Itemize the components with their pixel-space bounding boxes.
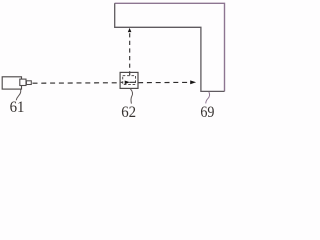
laser source 61: main body <box>2 77 21 89</box>
svg-text:62: 62 <box>121 104 136 120</box>
modulator 62: internal beam arrow <box>125 81 130 85</box>
wire: vertical dash inside box 62 top <box>129 73 131 76</box>
arrowhead on beam at 69 <box>190 80 196 84</box>
wire: horizontal dashed beam from 61 to 69 <box>33 81 190 84</box>
wire: vertical dashed beam from 62 up to 69 <box>129 33 131 76</box>
mirror body 69 (L-shaped block), outer purple edges <box>115 3 225 91</box>
leader line to label 69 <box>206 92 210 103</box>
leader line to label 62 <box>130 89 132 104</box>
svg-text:69: 69 <box>200 104 214 120</box>
wire: horizontal dash inside box 62 left <box>121 81 123 83</box>
mirror body 69 inner gray edges <box>115 3 225 91</box>
modulator 62: outer box <box>120 72 138 88</box>
modulator 62: internal beam line <box>130 81 136 83</box>
svg-text:61: 61 <box>10 99 25 117</box>
modulator 62: inner dashed cell <box>123 76 136 85</box>
arrowhead on vertical beam <box>128 28 132 32</box>
laser source 61: collimator block <box>20 79 26 85</box>
laser source 61: output nub <box>26 81 31 85</box>
leader line to label 61 <box>16 90 21 101</box>
